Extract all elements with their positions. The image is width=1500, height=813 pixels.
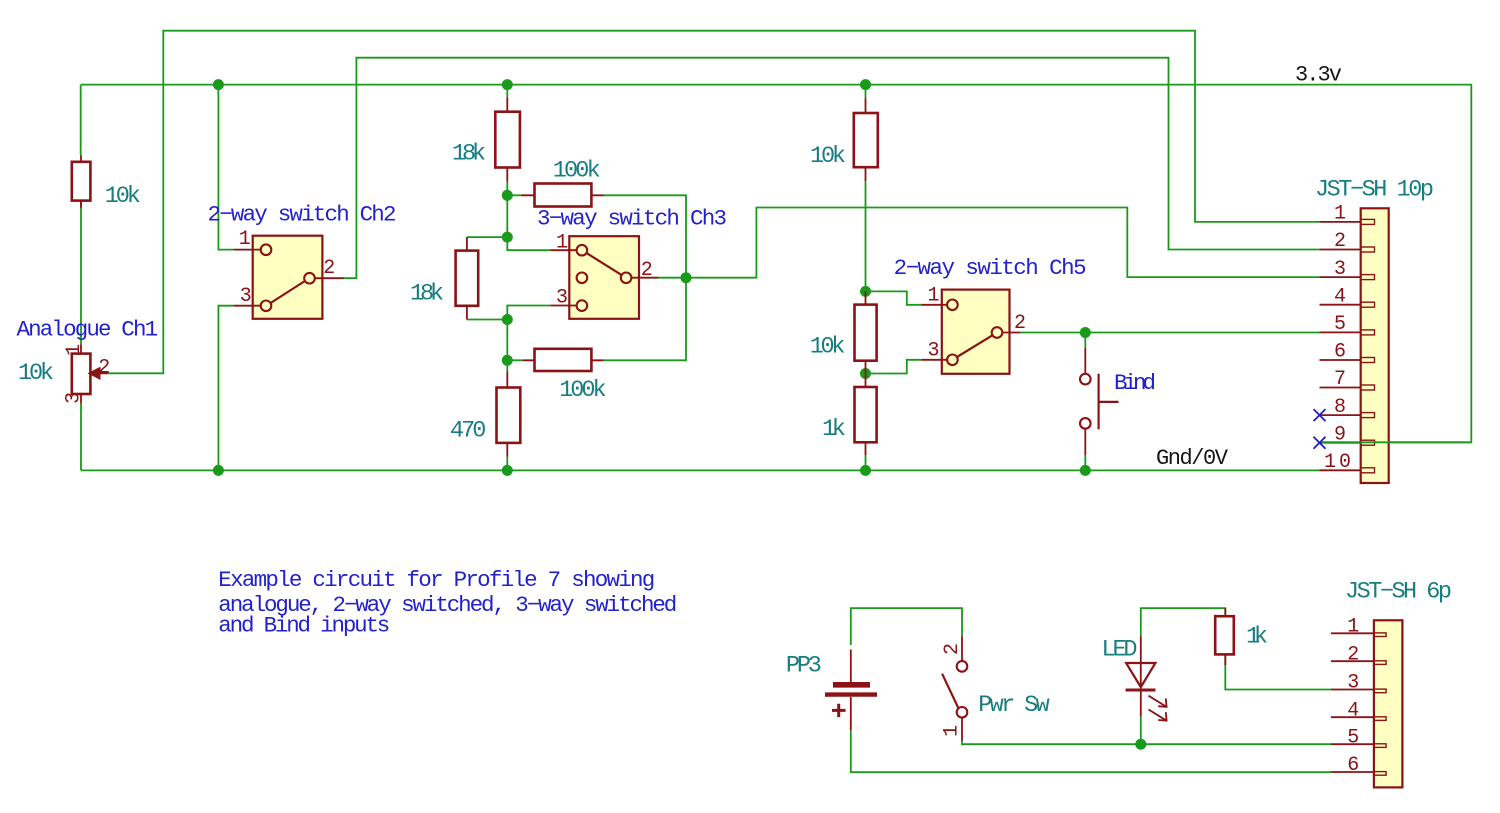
svg-text:Gnd/0V: Gnd/0V [1156,446,1229,471]
resistor 100k upper [522,184,604,207]
svg-text:3: 3 [1334,258,1346,281]
resistor 10k (Ch5 top) [854,98,878,181]
wire ground rail Gnd/0V [81,469,1320,471]
potentiometer 10k Analogue Ch1 [63,344,111,404]
svg-text:1: 1 [556,232,568,255]
resistor 10k left (Analogue Ch1 pull-up) [72,155,91,208]
connector JST-SH 6p pin pads [1374,633,1386,775]
svg-text:1: 1 [1347,616,1359,639]
node junction LED bottom [1135,739,1146,750]
wire junction D to 470 top [506,360,508,371]
svg-text:3.3v: 3.3v [1295,63,1342,88]
JST-SH 10p pin numbers 1-10 [1324,203,1351,474]
wire LED top to 1k top [1141,608,1226,636]
svg-text:7: 7 [1334,368,1346,391]
wire 10k bottom to junction E [865,181,867,291]
svg-text:3−way switch Ch3: 3−way switch Ch3 [537,206,727,232]
svg-text:1: 1 [941,725,964,737]
svg-text:100k: 100k [559,377,606,404]
resistor 18k lower [456,237,479,319]
wire junction E to Ch5 pin1 [866,291,922,304]
svg-text:5: 5 [1347,726,1359,749]
svg-text:1k: 1k [822,416,846,443]
node junction F [860,368,871,379]
svg-text:100k: 100k [553,157,601,184]
svg-text:6: 6 [1334,341,1346,364]
svg-text:10k: 10k [105,183,141,210]
svg-text:4: 4 [1347,699,1359,722]
svg-text:1: 1 [63,344,86,356]
wire Pwr Sw pin1 to JST6 pin5 [962,741,1331,744]
svg-text:1k: 1k [1246,624,1268,651]
wire 1k bottom to JST6 pin3 [1225,655,1331,690]
svg-text:10k: 10k [18,360,54,387]
svg-text:JST−SH 10p: JST−SH 10p [1315,177,1434,204]
svg-text:10k: 10k [810,143,846,170]
wire junction A to top 100k left [507,194,522,196]
svg-text:2: 2 [1347,643,1359,666]
svg-text:4: 4 [1334,285,1346,308]
wire battery bottom to JST6 pin6 [851,730,1331,772]
svg-text:2: 2 [98,357,110,380]
svg-text:18k: 18k [452,141,486,168]
svg-text:Analogue Ch1: Analogue Ch1 [17,317,159,343]
wire battery top to Pwr Sw pin2 [851,608,962,645]
connector JST-SH 10p [1320,208,1389,483]
no-connect X pin 9 [1314,437,1326,449]
2-way switch Ch2 [233,228,344,319]
node junction 3.3v x507 [502,79,513,90]
wire 3.3v drop to 10k (Ch5 top) [865,85,867,99]
svg-text:2: 2 [941,643,964,655]
wire junction B to 18k2 top [467,236,507,238]
svg-text:3: 3 [1347,672,1359,695]
node junction Ch3 output [681,272,692,283]
wire 3.3v to JST pin9 overdraw [1322,441,1471,443]
resistor 1k (LED) [1215,608,1234,665]
connector JST-SH 10p pin pads [1361,219,1375,472]
node junction gnd x1085 [1080,465,1091,476]
node junction gnd x218 [213,465,224,476]
svg-text:and Bind inputs: and Bind inputs [218,613,390,639]
svg-text:2: 2 [641,259,653,282]
svg-text:3: 3 [63,392,86,404]
node junction bind top [1080,327,1091,338]
node junction gnd x507 [502,465,513,476]
svg-text:5: 5 [1334,313,1346,336]
node junction 3.3v x865 [860,79,871,90]
node junction A [502,190,513,201]
svg-text:Pwr Sw: Pwr Sw [978,692,1049,719]
svg-text:2: 2 [1334,230,1346,253]
wire 1k bottom to ground rail [865,455,867,470]
2-way switch Ch5 [922,284,1026,374]
node junction D [502,355,513,366]
JST-SH 6p pin numbers 1-6 [1347,616,1359,778]
push button Bind [1080,348,1119,455]
svg-text:6: 6 [1347,754,1359,777]
resistor 1k (Ch5 bottom) [855,374,877,456]
3-way switch Ch3 [550,232,658,319]
wire Ch5 pin2 output to JST pin5 [1020,332,1319,334]
wire bind top junction drop [1084,333,1086,348]
svg-text:JST−SH 6p: JST−SH 6p [1345,579,1452,606]
wire LED bottom to junction [1140,716,1142,744]
svg-text:3: 3 [927,339,939,362]
wire net Ch2 pin2 to rail 2 to JST pin2 [344,58,1320,279]
wire 3.3v rail [81,85,1472,443]
battery PP3 [825,650,877,731]
node junction C [502,314,513,325]
svg-text:Bind: Bind [1114,370,1156,396]
svg-text:3: 3 [240,285,252,308]
svg-text:18k: 18k [410,281,444,308]
svg-text:1: 1 [1334,203,1346,226]
resistor 470 [497,372,521,457]
svg-text:470: 470 [450,418,487,445]
no-connect X pin 8 [1314,409,1326,421]
node junction 3.3v x218 [213,79,224,90]
wire left 10k bottom to pot top [80,201,82,345]
wire junction C to 18k2 bottom [467,319,507,321]
svg-text:2: 2 [1014,312,1026,335]
svg-text:2: 2 [323,257,335,280]
wire 470 bottom to ground rail [506,457,508,471]
svg-text:PP3: PP3 [786,653,822,680]
wire Ch2 pin3 to ground rail [218,306,233,471]
resistor 100k lower [523,349,604,371]
svg-text:3: 3 [556,287,568,310]
wire 3.3v drop to 18k top [506,85,508,98]
wire junction D to lower 100k left [507,359,522,361]
node junction E [860,286,871,297]
svg-text:1: 1 [239,228,251,251]
connector JST-SH 6p [1331,620,1402,787]
node junction B [502,232,513,243]
svg-text:10k: 10k [810,334,846,361]
wire Ch3 pin3 to junction C and D [507,306,550,361]
svg-text:2−way switch Ch5: 2−way switch Ch5 [894,255,1087,281]
resistor 10k (Ch5 mid) [855,291,877,373]
wire net pot-wiper to top rail 1 to JST pin1 [106,31,1320,374]
wire 3.3v drop to left 10k [80,85,82,156]
wire bind bottom to ground rail [1084,455,1086,470]
node junction gnd x865 [860,465,871,476]
resistor 18k upper [495,97,520,181]
svg-text:2−way switch Ch2: 2−way switch Ch2 [208,202,397,228]
LED D1 [1126,636,1167,721]
wire 3.3v to Ch2 pin1 [218,85,233,250]
wire pot bottom to ground rail [80,403,82,470]
wire 18k bottom through junctions to Ch3 pin1 [507,182,550,251]
svg-text:1: 1 [927,284,939,307]
wire top 100k right to vertical x686 [604,195,687,360]
switch Pwr Sw [941,636,968,741]
wire junction F to Ch5 pin3 [866,360,922,374]
svg-text:Example circuit for Profile 7: Example circuit for Profile 7 showing [218,567,655,593]
svg-text:8: 8 [1334,396,1346,419]
wire Ch3 pin2 output to JST pin3 [659,208,1320,278]
svg-text:LED: LED [1102,636,1138,663]
